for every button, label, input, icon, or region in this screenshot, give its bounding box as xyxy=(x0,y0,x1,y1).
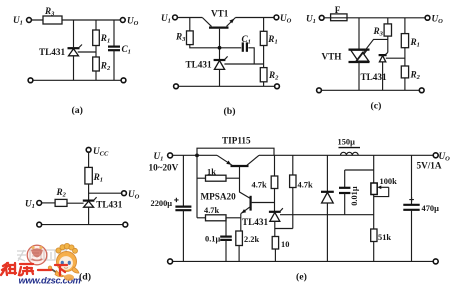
svg-text:(e): (e) xyxy=(296,271,307,282)
wire 4.7k row left (e) xyxy=(197,217,206,219)
bottom rail (c) xyxy=(322,89,420,91)
capacitor C1 bottom wire (a) xyxy=(113,50,115,80)
wire R3 bottom to TL431 cathode (c) xyxy=(387,36,389,52)
svg-text:0.01μ: 0.01μ xyxy=(350,186,359,206)
wire R1 top drop (a) xyxy=(95,20,97,30)
resistor R2 (d) xyxy=(55,199,67,206)
resistor 4.7k sense (e) xyxy=(290,175,296,188)
wire 51k bottom drop (e) xyxy=(373,242,375,262)
wire R1 top drop (b) xyxy=(263,18,265,32)
wire 4.7k right to emitter node (e) xyxy=(226,217,241,219)
svg-text:(c): (c) xyxy=(371,101,382,112)
wire R3 top drop (b) xyxy=(189,18,191,31)
resistor R3 (a) xyxy=(43,16,62,24)
resistor 4.7k emitter row (e) xyxy=(206,215,227,221)
wire TL431 anode to bottom rail (d) xyxy=(88,207,90,224)
terminal bottom-right (a) xyxy=(121,78,126,83)
bottom rail (b) xyxy=(179,85,275,87)
wire R3 top drop (c) xyxy=(387,18,389,24)
wire top rail (c) xyxy=(347,17,425,19)
thyristor VTH triac (c) xyxy=(349,50,370,62)
terminal bottom-left (a) xyxy=(28,78,33,83)
svg-text:5V/1A: 5V/1A xyxy=(417,161,442,171)
wire triac gate (c) xyxy=(357,39,388,61)
resistor R1 (b) xyxy=(260,31,267,45)
wire 1k right to base node (e) xyxy=(226,177,240,179)
resistor R1 (c) xyxy=(401,34,408,48)
svg-text:(a): (a) xyxy=(72,105,83,116)
svg-text:TL431: TL431 xyxy=(186,60,212,70)
op-amp TL431 symbol (a) xyxy=(68,45,83,56)
inductor 150u coil (e) xyxy=(341,152,359,155)
wire TL431 ref to divider midpoint (c) xyxy=(386,57,405,59)
wire UCC to R1 (d) xyxy=(88,152,90,167)
svg-text:0.1μ: 0.1μ xyxy=(205,234,220,243)
resistor R1 (d) xyxy=(85,167,92,184)
wire 2200u bottom drop (e) xyxy=(182,210,184,261)
op-amp TL431 symbol (c) xyxy=(379,52,388,62)
terminal bottom-right (b) xyxy=(275,84,280,89)
wire triac bottom drop (c) xyxy=(358,62,360,90)
svg-text:100k: 100k xyxy=(380,177,398,186)
watermark red stamp xyxy=(27,245,47,265)
wire TL431 anode node (e) xyxy=(275,221,293,236)
terminal bottom-right (e) xyxy=(433,259,438,264)
capacitor C1 (b) xyxy=(243,42,247,51)
wire TL431 cathode drop (a) xyxy=(73,20,75,47)
resistor R2 (a) xyxy=(93,57,100,71)
wire R1 top drop (c) xyxy=(404,18,406,34)
node input junction dot (e) xyxy=(195,154,199,158)
resistor 4.7k pullup (e) xyxy=(271,176,278,189)
wire R1 bottom to TL431 cathode (d) xyxy=(88,184,90,200)
terminal U1 input (c) xyxy=(319,15,324,20)
wire TL431 ref to feedback (e) xyxy=(280,214,374,216)
wire 4.7k sense top drop (e) xyxy=(292,155,294,175)
wire pot branch vertical (e) xyxy=(373,155,375,229)
wire TL431 cathode (e) xyxy=(274,189,276,212)
op-amp TL431 symbol (b) xyxy=(214,56,228,69)
wire R2 bottom drop (a) xyxy=(95,71,97,80)
watermark gray text ghost xyxy=(17,250,67,261)
terminal bottom-left (c) xyxy=(317,88,322,93)
svg-text:51k: 51k xyxy=(378,233,391,242)
svg-text:10: 10 xyxy=(281,240,289,249)
terminal U1 input (b) xyxy=(173,15,178,20)
fuse F (c) xyxy=(331,14,347,21)
wire TL431 ref to R2 (d) xyxy=(67,202,84,204)
wire 4.7k pullup top drop (e) xyxy=(274,155,276,176)
terminal U1 input (e) xyxy=(168,153,173,158)
svg-text:2.2k: 2.2k xyxy=(244,235,259,244)
capacitor 0.1u (e) xyxy=(220,237,232,240)
wire R2 bottom drop (b) xyxy=(263,82,265,87)
terminal U0 output (e) xyxy=(433,153,438,158)
wire 0.1u bottom drop (e) xyxy=(225,240,227,261)
wire input rail to collector (b) xyxy=(178,17,203,19)
bottom rail (e) xyxy=(173,260,434,262)
resistor R3 (c) xyxy=(384,24,391,36)
transistor TIP115 (e) xyxy=(217,155,259,166)
svg-text:TL431: TL431 xyxy=(96,200,122,210)
wire TL431 anode to bottom rail (c) xyxy=(382,62,384,90)
watermark red text wei ku yi xia (drawn strokes) xyxy=(1,263,67,275)
node base junction dot (b) xyxy=(218,46,222,50)
bottom rail (a) xyxy=(33,79,121,81)
wire R1-R2 midpoint (a) xyxy=(95,46,97,58)
wire top bump over TIP115 (e) xyxy=(197,148,274,155)
wire left branch vertical (e) xyxy=(196,155,198,218)
svg-text:TL431: TL431 xyxy=(39,47,65,57)
terminal U1 input (a) xyxy=(27,18,32,23)
svg-text:(b): (b) xyxy=(224,106,236,117)
svg-text:1k: 1k xyxy=(207,168,216,177)
wire collector rail (e) xyxy=(259,154,433,156)
resistor R1 (a) xyxy=(93,30,100,46)
svg-text:150μ: 150μ xyxy=(338,138,356,147)
watermark mascot xyxy=(48,243,79,276)
svg-text:2200μ: 2200μ xyxy=(151,199,173,208)
wire R2 bottom drop (c) xyxy=(404,78,406,90)
wire 0.01u bottom drop (e) xyxy=(344,193,346,215)
wire diode bottom drop (e) xyxy=(326,203,328,261)
terminal U0 output (c) xyxy=(425,15,430,20)
svg-text:TL431: TL431 xyxy=(242,217,268,227)
wire 1k row left (e) xyxy=(197,177,206,179)
watermark mascot foot over url xyxy=(64,274,74,280)
wire 4.7k sense bottom to anode wire (e) xyxy=(292,188,294,229)
capacitor C1 (a) xyxy=(108,47,120,51)
wire TL431 anode to bottom rail (a) xyxy=(73,56,75,81)
op-amp TL431 symbol (d) xyxy=(83,197,97,207)
wire 0.01u sub-loop top (e) xyxy=(345,170,374,187)
potentiometer 100k (e) xyxy=(371,183,389,197)
transistor VT1 (b) xyxy=(202,18,235,28)
bottom rail (d) xyxy=(42,224,123,226)
terminal UCC (d) xyxy=(86,147,91,152)
svg-text:4.7k: 4.7k xyxy=(298,180,313,189)
wire emitter rail to output (b) xyxy=(236,17,275,19)
capacitor C1 top wire (a) xyxy=(113,20,115,46)
capacitor 2200u electrolytic (e) xyxy=(174,198,191,211)
svg-text:470μ: 470μ xyxy=(422,204,440,213)
capacitor 0.01u (e) xyxy=(339,188,350,193)
resistor 2.2k (e) xyxy=(236,231,243,246)
wire R2 to U1 terminal (d) xyxy=(42,202,55,204)
wire output branch (d) xyxy=(89,192,122,194)
terminal bottom-right (c) xyxy=(419,88,424,93)
terminal bottom-left (b) xyxy=(174,84,179,89)
capacitor 470u electrolytic (e) xyxy=(403,197,419,210)
svg-text:(d): (d) xyxy=(79,272,91,283)
wire input to fuse (c) xyxy=(324,17,330,19)
terminal U1 (d) xyxy=(37,201,42,206)
resistor R2 (c) xyxy=(401,66,408,78)
wire 10 bottom drop (e) xyxy=(274,249,276,261)
svg-text:VT1: VT1 xyxy=(211,9,229,19)
wire triac top drop (c) xyxy=(358,18,360,49)
terminal U0 output (b) xyxy=(274,15,279,20)
wire MPSA20 emitter node vertical (e) xyxy=(240,214,242,232)
svg-text:TIP115: TIP115 xyxy=(222,136,251,146)
resistor 10 (e) xyxy=(272,237,278,250)
svg-text:F: F xyxy=(335,5,341,15)
wire TL431 anode to bottom rail (b) xyxy=(219,70,221,87)
op-amp TL431 symbol (e) xyxy=(269,208,283,221)
wire VT1 base drop (b) xyxy=(219,29,221,59)
wire TIP115 base drop (e) xyxy=(240,167,251,198)
wire input rail (e) xyxy=(173,154,217,156)
svg-text:4.7k: 4.7k xyxy=(252,180,267,189)
wire R3 bottom to base node (b) xyxy=(190,45,242,48)
resistor 51k (e) xyxy=(371,229,377,242)
wire 470u top drop (e) xyxy=(411,155,413,204)
wire R1-R2 midpoint (c) xyxy=(404,48,406,66)
terminal U0 output (a) xyxy=(120,18,125,23)
svg-text:10~20V: 10~20V xyxy=(149,163,179,173)
wire R1-R2 midpoint (b) xyxy=(263,46,265,68)
wire C1 right to ref wire (b) xyxy=(248,48,254,64)
diode freewheel (e) xyxy=(321,192,334,203)
svg-text:MPSA20: MPSA20 xyxy=(201,192,237,202)
wire 0.1u top drop (e) xyxy=(225,218,227,236)
wire TL431 ref to divider (a) xyxy=(78,51,96,53)
wire 2200u cap top drop (e) xyxy=(182,155,184,206)
wire 2.2k bottom drop (e) xyxy=(238,246,240,262)
svg-text:4.7k: 4.7k xyxy=(204,206,219,215)
resistor R3 (b) xyxy=(187,31,194,45)
inductor 150u underline (e) xyxy=(339,147,361,149)
transistor MPSA20 (e) xyxy=(241,196,275,214)
resistor 1k (e) xyxy=(206,175,227,181)
terminal bottom-right (d) xyxy=(123,222,128,227)
terminal U0 (d) xyxy=(122,191,127,196)
wire top rail (a) xyxy=(32,19,121,21)
wire diode top drop (e) xyxy=(326,155,328,191)
terminal bottom-left (d) xyxy=(37,222,42,227)
wire 470u bottom drop (e) xyxy=(411,210,413,261)
wire TL431 ref to divider midpoint (b) xyxy=(224,63,263,65)
svg-text:VTH: VTH xyxy=(322,52,342,62)
terminal bottom-left (e) xyxy=(168,259,173,264)
resistor R2 (b) xyxy=(260,68,267,82)
